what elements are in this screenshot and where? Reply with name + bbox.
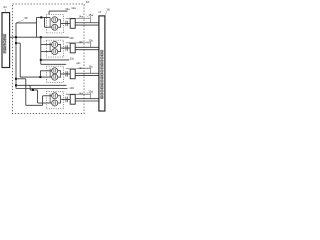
modulator circle cB: [52, 74, 58, 80]
box 16 combiner: [99, 16, 105, 111]
junction dot row1: [40, 16, 42, 18]
wire: row a output lower: [75, 24, 99, 26]
junction dot bus1 gap3: [15, 84, 17, 86]
wire: row4 lower arm feed: [38, 102, 52, 104]
wire: row c output lower: [75, 75, 99, 77]
outer dashed box 10: [13, 4, 85, 114]
wire: row a output upper: [75, 22, 99, 24]
svg-text:10: 10: [86, 0, 90, 4]
svg-text:13b: 13b: [69, 36, 74, 40]
wire: box21 output long run row2: [10, 36, 69, 38]
svg-text:15a: 15a: [88, 13, 93, 17]
leader tick 14a: [86, 16, 89, 18]
leader tick 14d: [86, 92, 89, 94]
svg-text:14a: 14a: [78, 15, 83, 19]
leader line 15c long: [66, 68, 90, 70]
leader for 10: [84, 3, 85, 5]
modulator circle aA: [52, 17, 58, 23]
leader line 15a long: [66, 17, 90, 19]
svg-text:14c: 14c: [78, 66, 83, 70]
splitter bar row d: [49, 94, 51, 104]
leader tick 14b: [86, 41, 89, 43]
svg-text:14c: 14c: [76, 61, 81, 65]
leader for 21: [4, 9, 6, 13]
svg-text:12a: 12a: [71, 6, 76, 10]
wire: bus1 top corner to row1 riser: [16, 22, 37, 24]
svg-text:15b: 15b: [88, 38, 93, 42]
wire: row4 loop left feed: [16, 78, 26, 80]
wire: row1 branch down: [44, 17, 46, 27]
wire: loop right vertical: [42, 96, 44, 106]
splitter bar row b: [49, 42, 51, 52]
svg-text:13a: 13a: [65, 7, 70, 11]
wire: row d output lower: [75, 100, 99, 102]
wire: gap3 drop at x30.1: [29, 85, 31, 90]
svg-text:21: 21: [3, 5, 7, 9]
junction dot gap2: [40, 59, 42, 61]
modulator circle bA: [52, 42, 58, 48]
MZM sub-box 13c dashed: [46, 66, 63, 82]
element bars row c: [65, 71, 67, 76]
wire: row b output upper: [75, 46, 99, 48]
junction dot bus1 row3: [15, 42, 17, 44]
wire: loop bottom: [26, 104, 43, 106]
wire: row c output upper: [75, 72, 99, 74]
modulator circle bB: [52, 49, 58, 55]
wire: row d output upper: [75, 98, 99, 100]
element bars row d: [65, 97, 67, 102]
wire: row c combine: [58, 71, 61, 77]
junction dot bus1/box21: [15, 36, 17, 38]
wire: row4 upper arm feed: [43, 95, 52, 97]
box 21 vertical text: [4, 34, 6, 53]
wire: row3 upper arm feed: [40, 70, 51, 72]
wire: row a combine: [58, 20, 61, 28]
box 14c: [70, 69, 75, 79]
leader for 16: [105, 11, 107, 15]
wire: row3 lower arm feed: [20, 76, 51, 78]
box 14a: [70, 19, 75, 29]
leader line 15b long: [66, 42, 90, 44]
wire: row2 upper arm feed: [41, 44, 52, 46]
element bars row a: [65, 21, 67, 26]
modulator circle aB: [52, 24, 58, 30]
wire: gap3 upper horizontal: [16, 84, 67, 86]
leader line 14c row3: [41, 63, 66, 65]
MZM sub-box 13b dashed: [46, 40, 63, 57]
wire: row2 lower arm feed: [41, 51, 52, 53]
wire: gap3 drop at x32.8: [32, 89, 34, 91]
junction dot row3: [39, 76, 41, 78]
wire: bus1 vertical: [15, 23, 17, 89]
wire: gap3 lower horizontal: [16, 88, 68, 90]
wire: row b output lower: [75, 49, 99, 51]
wire: row4 lower arm vertical: [37, 90, 39, 103]
svg-text:30: 30: [24, 16, 28, 20]
wire: loop top: [30, 89, 37, 91]
leader 15b vertical: [89, 42, 91, 47]
leader tick 14c: [86, 67, 89, 69]
wire: loop left vertical: [25, 79, 27, 106]
box 16 vertical text: [101, 50, 103, 98]
svg-text:15d: 15d: [88, 90, 93, 94]
leader 15c vertical: [89, 68, 91, 73]
svg-text:14b: 14b: [78, 40, 83, 44]
leader 15d vertical: [89, 93, 91, 99]
modulator circle cA: [52, 68, 58, 74]
element bars row b: [65, 45, 67, 50]
box 14b: [70, 43, 75, 53]
wire: row d combine: [58, 96, 61, 103]
wire: row3 feed horizontal from bus1: [16, 42, 20, 44]
leader for 30: [17, 20, 24, 23]
leader line 15d long: [66, 93, 90, 95]
svg-text:13d: 13d: [69, 86, 74, 90]
wire: row1 upper arm feed: [37, 16, 51, 18]
leader line 13a row1: [49, 10, 67, 12]
junction dot bus1 row4 upper: [15, 78, 17, 80]
junction dot row2 connector: [40, 36, 42, 38]
svg-text:16: 16: [106, 8, 110, 12]
box 14d: [70, 95, 75, 105]
splitter bar row a: [49, 17, 51, 27]
wire: row3 feed vertical: [19, 43, 21, 77]
wire: row b combine: [58, 45, 61, 52]
box 21 driver: [2, 13, 10, 68]
leader line 13c: [41, 59, 70, 61]
modulator circle dB: [52, 100, 58, 106]
splitter bar row c: [49, 69, 51, 78]
wire: row2 vertical connector: [40, 37, 42, 64]
junction dot loop top: [32, 89, 34, 91]
svg-text:15c: 15c: [88, 64, 93, 68]
svg-text:17: 17: [98, 10, 101, 14]
MZM sub-box 13a dashed: [46, 15, 63, 33]
wire: row1 riser: [36, 17, 38, 37]
modulator circle dA: [52, 93, 58, 99]
svg-text:13c: 13c: [70, 57, 75, 61]
wire: row3 branch up: [39, 71, 41, 77]
leader 15a vertical: [89, 16, 91, 22]
svg-text:14d: 14d: [78, 91, 83, 95]
wire: row1 lower arm feed: [45, 26, 52, 28]
MZM sub-box 13d dashed: [46, 91, 63, 108]
